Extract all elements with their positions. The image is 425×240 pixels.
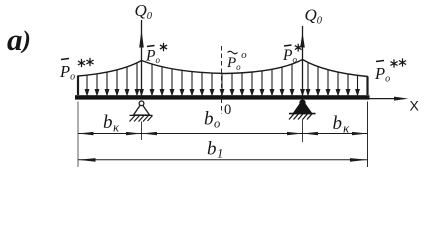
svg-text:a): a): [7, 22, 31, 57]
envelope left edge: [77, 76, 79, 95]
dimension bk left: [78, 132, 142, 135]
label P0** right end: [374, 58, 406, 84]
support A: [130, 101, 153, 122]
dimension bk right: [303, 132, 368, 135]
centre line: [221, 46, 223, 114]
dimension b0: [142, 132, 303, 135]
label P0* right support: [282, 44, 302, 65]
x axis: [370, 97, 409, 101]
svg-text:Poo: Poo: [226, 49, 247, 72]
svg-text:bo: bo: [204, 109, 220, 131]
dimension b1 overall: [78, 158, 368, 162]
beam: [75, 95, 370, 99]
svg-text:Po: Po: [374, 64, 390, 85]
load envelope: [78, 60, 368, 96]
force Q0 left: [139, 20, 144, 95]
support B: [289, 100, 316, 119]
svg-text:0: 0: [224, 102, 231, 118]
envelope right edge: [366, 77, 368, 96]
extension line support B: [302, 120, 304, 143]
extension line left: [77, 102, 79, 168]
label P0 middle: [226, 49, 247, 72]
svg-text:Po: Po: [145, 48, 160, 66]
extension line right: [367, 102, 369, 168]
svg-text:Q0: Q0: [135, 1, 153, 22]
distributed load arrows: [85, 63, 359, 95]
label P0** left end: [59, 58, 94, 83]
label P0* left support: [145, 43, 167, 65]
svg-text:X: X: [410, 98, 420, 114]
svg-text:bκ: bκ: [333, 113, 351, 136]
svg-text:bκ: bκ: [103, 112, 120, 135]
svg-text:b1: b1: [207, 139, 223, 161]
svg-text:Po: Po: [59, 62, 75, 83]
force Q0 right: [300, 26, 305, 95]
svg-text:Q0: Q0: [305, 6, 323, 27]
extension line support A: [141, 122, 143, 141]
